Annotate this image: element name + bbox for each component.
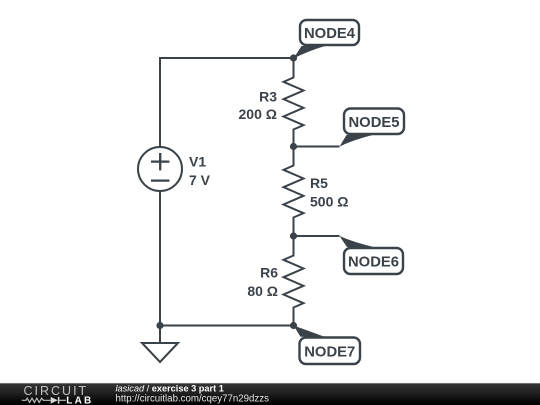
node NODE4 junction dot bbox=[290, 54, 297, 61]
voltage source V1 bbox=[138, 147, 182, 191]
node NODE7 flag bbox=[294, 326, 361, 365]
svg-text:R6: R6 bbox=[260, 265, 278, 281]
svg-text:NODE4: NODE4 bbox=[304, 26, 356, 42]
node NODE4 flag bbox=[294, 20, 360, 59]
resistor R6 bbox=[284, 236, 304, 326]
node NODE6 flag bbox=[340, 236, 404, 274]
svg-text:http://circuitlab.com/cqey77n2: http://circuitlab.com/cqey77n29dzzs bbox=[116, 394, 270, 405]
wire left vertical lower bbox=[159, 191, 161, 326]
ground bbox=[142, 326, 178, 363]
svg-text:7 V: 7 V bbox=[189, 172, 211, 188]
svg-text:NODE6: NODE6 bbox=[348, 255, 399, 271]
resistor R5 bbox=[284, 147, 304, 237]
svg-text:V1: V1 bbox=[189, 154, 206, 170]
svg-text:LAB: LAB bbox=[66, 395, 93, 405]
wire top horizontal + left vertical upper bbox=[160, 58, 294, 148]
resistor R3 bbox=[284, 58, 304, 147]
wire node5 stub bbox=[294, 146, 340, 148]
logo resistor zigzag bbox=[22, 398, 51, 402]
svg-text:200 Ω: 200 Ω bbox=[239, 106, 277, 122]
svg-text:lasicad / exercise 3 part 1: lasicad / exercise 3 part 1 bbox=[116, 383, 224, 393]
node NODE5 junction dot bbox=[290, 143, 297, 150]
node ground junction dot bbox=[156, 322, 163, 329]
node NODE5 flag bbox=[340, 109, 405, 147]
node NODE6 junction dot bbox=[290, 232, 297, 239]
svg-text:NODE5: NODE5 bbox=[349, 115, 400, 131]
wire node6 stub bbox=[294, 235, 340, 237]
logo diode bbox=[51, 397, 58, 404]
wire bottom horizontal bbox=[160, 325, 294, 327]
svg-text:R5: R5 bbox=[310, 175, 328, 191]
footer bar bbox=[0, 383, 540, 405]
svg-text:NODE7: NODE7 bbox=[304, 345, 355, 361]
svg-text:80 Ω: 80 Ω bbox=[247, 283, 278, 299]
svg-text:500 Ω: 500 Ω bbox=[310, 194, 348, 210]
node NODE7 junction dot bbox=[290, 322, 297, 329]
svg-text:R3: R3 bbox=[259, 89, 277, 105]
